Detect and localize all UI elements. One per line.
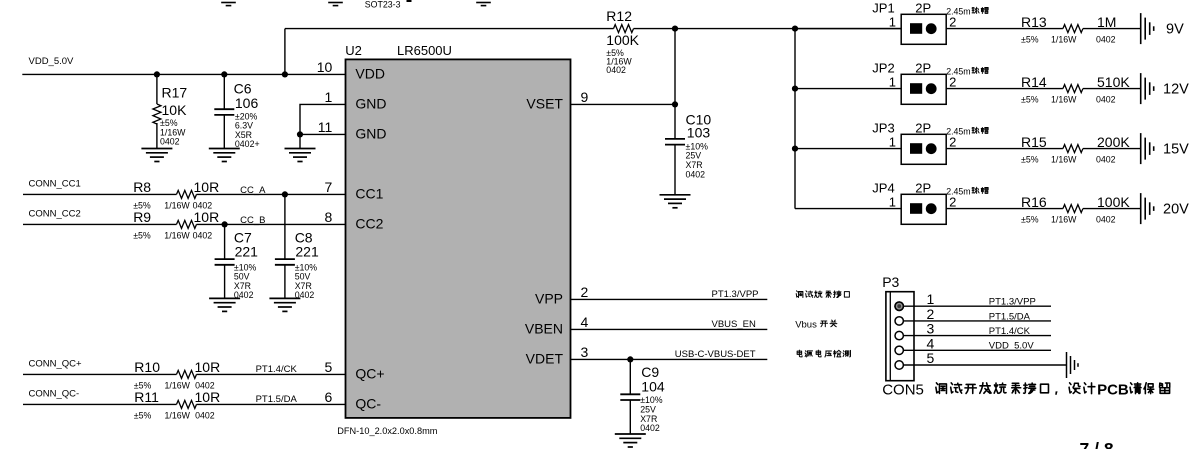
svg-text:JP3: JP3: [872, 121, 894, 136]
svg-text:VBUS_EN: VBUS_EN: [712, 319, 756, 330]
svg-text:7 / 8: 7 / 8: [1080, 439, 1114, 449]
svg-text:CC2: CC2: [355, 216, 383, 232]
svg-text:±5%: ±5%: [134, 410, 152, 420]
svg-text:VPP: VPP: [535, 291, 563, 307]
svg-text:CONN_CC2: CONN_CC2: [29, 208, 81, 219]
svg-text:10K: 10K: [162, 102, 188, 118]
svg-text:1: 1: [325, 89, 333, 105]
svg-text:PT1.5/DA: PT1.5/DA: [256, 394, 298, 405]
svg-text:R13: R13: [1021, 14, 1047, 30]
svg-text:1/16W: 1/16W: [164, 231, 190, 241]
svg-text:2: 2: [949, 15, 956, 30]
svg-text:6: 6: [325, 389, 333, 405]
svg-text:3: 3: [927, 321, 935, 337]
svg-text:USB-C-VBUS-DET: USB-C-VBUS-DET: [675, 349, 756, 360]
svg-text:1: 1: [889, 135, 896, 150]
svg-text:4: 4: [927, 335, 935, 351]
svg-text:DFN-10_2.0x2.0x0.8mm: DFN-10_2.0x2.0x0.8mm: [337, 426, 437, 436]
svg-text:R14: R14: [1021, 74, 1047, 90]
svg-text:GND: GND: [355, 96, 386, 112]
svg-text:2.45m: 2.45m: [946, 186, 970, 196]
svg-text:CC_B: CC_B: [240, 215, 265, 226]
svg-text:1/16W: 1/16W: [1051, 215, 1077, 225]
svg-text:2.45m: 2.45m: [946, 126, 970, 136]
svg-text:106: 106: [235, 95, 259, 111]
svg-text:VDD: VDD: [355, 66, 385, 82]
svg-text:CONN_CC1: CONN_CC1: [29, 178, 81, 189]
svg-text:0402: 0402: [686, 169, 706, 179]
svg-text:10: 10: [317, 59, 333, 75]
svg-text:2P: 2P: [915, 61, 931, 76]
svg-text:1: 1: [927, 291, 935, 307]
svg-text:10R: 10R: [194, 209, 220, 225]
svg-text:1: 1: [889, 195, 896, 210]
svg-text:11: 11: [318, 119, 333, 135]
svg-text:0402: 0402: [234, 290, 254, 300]
svg-text:0402: 0402: [1096, 215, 1116, 225]
svg-text:C6: C6: [234, 80, 252, 96]
svg-text:10R: 10R: [194, 179, 220, 195]
svg-text:JP4: JP4: [872, 181, 894, 196]
svg-text:2: 2: [949, 195, 956, 210]
svg-text:3: 3: [581, 344, 589, 360]
svg-text:SOT23-3: SOT23-3: [365, 0, 401, 10]
svg-text:R11: R11: [134, 389, 159, 405]
svg-text:0402: 0402: [640, 423, 660, 433]
svg-text:PT1.4/CK: PT1.4/CK: [989, 326, 1031, 337]
svg-text:100K: 100K: [1097, 194, 1130, 210]
svg-text:103: 103: [687, 125, 711, 141]
svg-text:2: 2: [581, 284, 589, 300]
svg-text:R12: R12: [606, 8, 632, 24]
svg-text:15V: 15V: [1163, 142, 1189, 158]
svg-text:1/16W: 1/16W: [1051, 155, 1077, 165]
svg-text:CONN_QC-: CONN_QC-: [29, 388, 80, 399]
svg-text:2P: 2P: [915, 121, 931, 136]
svg-text:VDET: VDET: [526, 351, 564, 367]
svg-text:±5%: ±5%: [1021, 215, 1039, 225]
svg-text:1: 1: [889, 15, 896, 30]
svg-text:±5%: ±5%: [1021, 35, 1039, 45]
svg-text:VBEN: VBEN: [525, 321, 563, 337]
svg-text:1/16W: 1/16W: [165, 380, 191, 390]
svg-text:100K: 100K: [606, 32, 639, 48]
svg-text:VDD_5.0V: VDD_5.0V: [989, 341, 1035, 352]
svg-text:PT1.5/DA: PT1.5/DA: [989, 311, 1031, 322]
svg-text:0402: 0402: [160, 137, 180, 147]
svg-text:PT1.3/VPP: PT1.3/VPP: [989, 297, 1036, 308]
svg-text:CONN_QC+: CONN_QC+: [29, 358, 83, 369]
svg-text:VSET: VSET: [526, 96, 563, 112]
svg-text:PCB: PCB: [1097, 382, 1129, 399]
svg-text:221: 221: [295, 244, 319, 260]
svg-text:2P: 2P: [915, 181, 931, 196]
svg-text:±5%: ±5%: [1021, 95, 1039, 105]
svg-text:1/16W: 1/16W: [1051, 35, 1077, 45]
svg-text:0402+: 0402+: [235, 139, 260, 149]
svg-text:4: 4: [581, 314, 589, 330]
svg-text:R15: R15: [1021, 134, 1047, 150]
svg-text:VDD_5.0V: VDD_5.0V: [29, 56, 75, 67]
svg-text:2: 2: [949, 135, 956, 150]
svg-text:CC_A: CC_A: [240, 185, 266, 196]
svg-text:PT1.3/VPP: PT1.3/VPP: [712, 289, 759, 300]
svg-text:CON5: CON5: [882, 382, 924, 399]
svg-text:R10: R10: [134, 359, 160, 375]
svg-text:9: 9: [581, 89, 589, 105]
svg-text:2: 2: [949, 75, 956, 90]
svg-text:1: 1: [889, 75, 896, 90]
svg-text:0402: 0402: [295, 290, 315, 300]
svg-text:0402: 0402: [193, 231, 213, 241]
svg-text:104: 104: [641, 379, 665, 395]
svg-text:2.45m: 2.45m: [946, 66, 970, 76]
svg-text:2.45m: 2.45m: [946, 6, 970, 16]
svg-text:R9: R9: [133, 209, 151, 225]
svg-text:R17: R17: [162, 84, 188, 100]
svg-text:1/16W: 1/16W: [165, 410, 191, 420]
svg-text:221: 221: [235, 244, 259, 260]
svg-text:±5%: ±5%: [133, 231, 151, 241]
svg-text:0402: 0402: [1096, 95, 1116, 105]
svg-text:0402: 0402: [1096, 155, 1116, 165]
svg-text:LR6500U: LR6500U: [397, 43, 452, 58]
svg-text:9V: 9V: [1166, 22, 1184, 38]
svg-text:CC1: CC1: [355, 186, 383, 202]
svg-text:Vbus: Vbus: [795, 320, 817, 331]
svg-text:PT1.4/CK: PT1.4/CK: [256, 364, 298, 375]
svg-text:8: 8: [325, 209, 333, 225]
svg-text:20V: 20V: [1163, 202, 1189, 218]
svg-text:R8: R8: [133, 179, 151, 195]
svg-text:±5%: ±5%: [1021, 155, 1039, 165]
svg-text:200K: 200K: [1097, 134, 1130, 150]
svg-text:GND: GND: [355, 126, 386, 142]
svg-text:R16: R16: [1021, 194, 1047, 210]
svg-text:QC+: QC+: [355, 366, 384, 382]
svg-text:7: 7: [325, 179, 333, 195]
svg-text:1/16W: 1/16W: [164, 201, 190, 211]
svg-text:1/16W: 1/16W: [1051, 95, 1077, 105]
svg-text:5: 5: [927, 350, 935, 366]
svg-text:2P: 2P: [915, 1, 931, 16]
svg-text:QC-: QC-: [355, 396, 381, 412]
svg-text:JP2: JP2: [872, 61, 894, 76]
svg-text:P3: P3: [882, 274, 899, 290]
svg-text:12V: 12V: [1163, 82, 1189, 98]
svg-text:10R: 10R: [195, 359, 221, 375]
svg-text:10R: 10R: [195, 389, 221, 405]
svg-text:510K: 510K: [1097, 74, 1130, 90]
svg-text:U2: U2: [345, 43, 362, 58]
svg-text:2: 2: [927, 306, 935, 322]
svg-text:0402: 0402: [195, 410, 215, 420]
svg-text:1M: 1M: [1097, 14, 1116, 30]
svg-text:0402: 0402: [606, 65, 626, 75]
svg-text:5: 5: [325, 359, 333, 375]
svg-text:JP1: JP1: [872, 1, 894, 16]
svg-text:0402: 0402: [1096, 35, 1116, 45]
